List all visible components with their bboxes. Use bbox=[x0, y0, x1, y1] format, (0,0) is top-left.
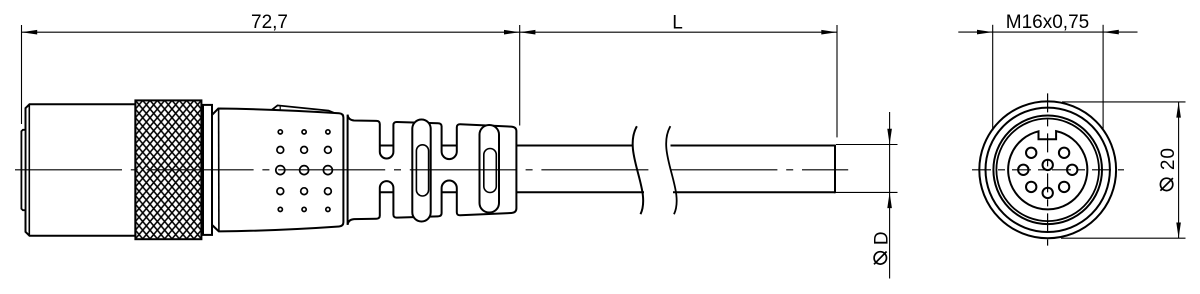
dim L arrow left bbox=[520, 30, 536, 35]
grip dots row2 bbox=[277, 147, 284, 154]
grip tab tick left bbox=[279, 106, 281, 110]
front view circle 4 bbox=[996, 119, 1099, 222]
svg-text:72,7: 72,7 bbox=[251, 12, 288, 33]
grip tab tick right bbox=[329, 111, 331, 113]
svg-text:D: D bbox=[872, 231, 893, 245]
cable break curve left bbox=[633, 126, 644, 214]
knurled coupling ring bbox=[135, 100, 201, 239]
dim 20 diameter symbol bbox=[1160, 178, 1172, 190]
dim L line bbox=[520, 31, 837, 33]
pin bottom-right bbox=[1059, 182, 1069, 192]
pin top-right bbox=[1059, 148, 1069, 158]
grip body bbox=[212, 109, 343, 232]
dim D extension top bbox=[836, 144, 898, 146]
rib 2 inner line bbox=[484, 149, 497, 193]
shell chamfer edge line bbox=[28, 104, 30, 236]
dim M16 arrow right bbox=[1103, 30, 1119, 35]
grip dots row1 bbox=[278, 130, 282, 134]
cable bbox=[379, 145, 836, 194]
dim L extension line right bbox=[836, 25, 838, 137]
dim D label bbox=[872, 231, 893, 245]
dim D arrow bottom bbox=[887, 192, 892, 208]
main centerline right part bbox=[670, 169, 848, 171]
dim M16 extension right bbox=[1102, 25, 1104, 131]
dim 72,7 arrow left bbox=[22, 30, 38, 35]
spacer ring bbox=[203, 105, 212, 235]
dim 20 label bbox=[1158, 147, 1179, 170]
svg-text:L: L bbox=[672, 12, 683, 33]
pin bottom-center bbox=[1043, 188, 1053, 198]
svg-text:M16x0,75: M16x0,75 bbox=[1006, 12, 1089, 33]
dim M16 arrow left bbox=[977, 30, 993, 35]
dim M16 extension left bbox=[992, 25, 994, 131]
dim D line bbox=[889, 112, 891, 279]
pin bottom-left bbox=[1026, 182, 1036, 192]
strain relief rib 2 bbox=[480, 125, 500, 213]
front view centerline vertical bbox=[1047, 93, 1049, 245]
pin right bbox=[1067, 165, 1077, 175]
dim L arrow right bbox=[821, 30, 837, 35]
grip dots row3 bbox=[276, 166, 285, 175]
grip chamfer edge line bbox=[218, 109, 220, 231]
dim 20 extension bottom bbox=[1061, 237, 1186, 239]
grip top tab bbox=[272, 105, 334, 112]
pin top-left bbox=[1026, 148, 1036, 158]
dim D diameter symbol bbox=[874, 252, 886, 264]
pin center bbox=[1043, 160, 1053, 170]
front lip bbox=[21, 130, 25, 210]
strain relief rib 1 bbox=[412, 120, 430, 222]
dim 20 extension top bbox=[1062, 101, 1186, 103]
dim 72,7 extension line left bbox=[21, 25, 23, 124]
dim D arrow top bbox=[887, 129, 892, 145]
front view circle 2 bbox=[985, 108, 1109, 232]
front view centerline horizontal bbox=[972, 169, 1124, 171]
dim 20 arrow bottom bbox=[1176, 223, 1181, 239]
front view outer circle bbox=[979, 101, 1116, 238]
pin left bbox=[1018, 165, 1028, 175]
grip dots row4 bbox=[277, 188, 284, 195]
dim M16 line bbox=[958, 31, 1137, 33]
cable break curve right bbox=[666, 126, 677, 214]
front view circle 3 bbox=[993, 116, 1102, 225]
dim D extension bottom bbox=[836, 191, 898, 193]
dim 20 line bbox=[1178, 102, 1180, 238]
grip dots row5 bbox=[278, 207, 282, 211]
connector rear shell body bbox=[26, 104, 136, 236]
dim 20 arrow top bbox=[1176, 102, 1181, 118]
dim extension line shared at connector end bbox=[519, 25, 521, 126]
dim 72,7 line bbox=[22, 31, 520, 33]
main centerline left part bbox=[15, 169, 649, 171]
rib 1 inner line bbox=[416, 145, 428, 196]
dim 72,7 arrow right bbox=[504, 30, 520, 35]
strain relief outline bbox=[348, 115, 517, 225]
svg-text:20: 20 bbox=[1158, 147, 1179, 170]
front view pin face circle with keying notch bbox=[1008, 131, 1087, 209]
